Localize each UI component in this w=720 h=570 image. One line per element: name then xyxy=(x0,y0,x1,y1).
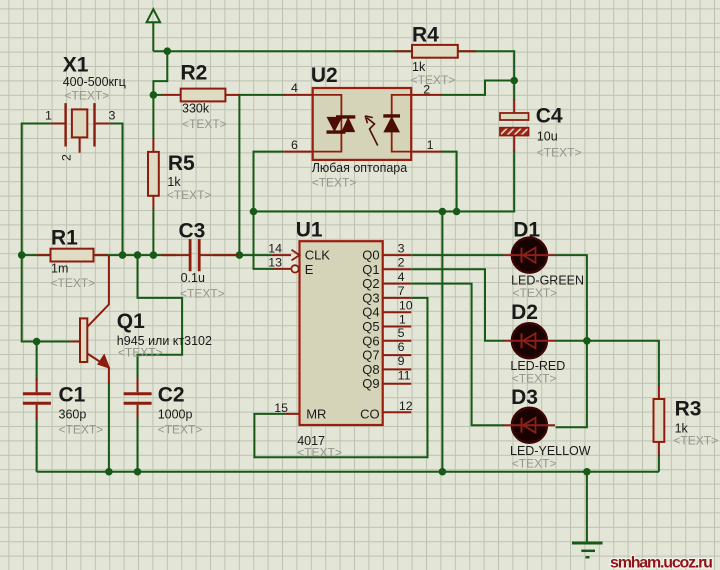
svg-text:D2: D2 xyxy=(511,301,538,324)
transistor Q1 xyxy=(70,255,212,383)
left pin stubs xyxy=(272,255,300,414)
node rail ground xyxy=(583,468,591,476)
wire R5 bottom to net xyxy=(152,208,154,255)
svg-text:<TEXT>: <TEXT> xyxy=(512,372,557,386)
svg-text:360p: 360p xyxy=(59,408,87,422)
base lead xyxy=(70,341,80,343)
svg-text:Q6: Q6 xyxy=(362,333,379,348)
svg-text:R4: R4 xyxy=(412,24,439,47)
svg-text:<TEXT>: <TEXT> xyxy=(65,89,110,103)
LED D3 xyxy=(504,386,591,471)
pin stubs xyxy=(284,95,442,152)
wire common horizontal under U2 xyxy=(254,151,515,212)
emitter lead xyxy=(87,354,109,384)
svg-text:X1: X1 xyxy=(63,54,89,77)
svg-text:<TEXT>: <TEXT> xyxy=(673,434,718,448)
svg-text:6: 6 xyxy=(291,138,298,152)
svg-text:1: 1 xyxy=(399,312,406,326)
svg-text:E: E xyxy=(305,262,314,277)
node common left xyxy=(250,208,258,216)
resistor R4 xyxy=(395,24,476,88)
svg-text:smham.ucoz.ru: smham.ucoz.ru xyxy=(610,555,712,570)
power symbol VCC arrow xyxy=(147,9,161,22)
svg-text:D3: D3 xyxy=(511,386,538,409)
wire cathode column to R3 xyxy=(587,341,659,386)
wire C1 bottom xyxy=(36,418,38,472)
svg-text:1k: 1k xyxy=(167,175,181,189)
wire R3 bottom to rail xyxy=(658,455,660,472)
wire ground rail xyxy=(37,471,659,473)
svg-text:12: 12 xyxy=(399,399,413,413)
right inner bracket xyxy=(392,95,412,152)
svg-text:2: 2 xyxy=(60,154,74,161)
capacitor C4 (polarized) xyxy=(500,99,581,160)
left inner bracket xyxy=(313,95,342,152)
svg-text:C1: C1 xyxy=(59,384,86,407)
right pin stubs xyxy=(383,255,412,412)
wire X1 pin1 net down left side xyxy=(22,124,71,342)
wire power stem xyxy=(152,22,154,51)
svg-text:R2: R2 xyxy=(181,62,208,85)
wire Q0 to D1 xyxy=(411,254,504,256)
svg-text:MR: MR xyxy=(306,407,326,422)
svg-text:10: 10 xyxy=(399,298,413,312)
svg-text:<TEXT>: <TEXT> xyxy=(180,287,225,301)
svg-text:9: 9 xyxy=(398,354,405,368)
resistor R5 xyxy=(148,138,211,209)
wire C3 right to U1 CLK xyxy=(213,254,272,256)
svg-text:1000p: 1000p xyxy=(158,408,193,422)
svg-text:3: 3 xyxy=(109,109,116,123)
svg-text:U2: U2 xyxy=(311,64,338,87)
wire R2 right to U2 pin4 and down to CLK net xyxy=(238,94,285,96)
wire common vertical down to ground rail xyxy=(441,212,443,472)
counter U1 4017 xyxy=(268,219,413,460)
node R2-left on power column xyxy=(150,91,158,99)
svg-text:5: 5 xyxy=(398,326,405,340)
svg-text:Q9: Q9 xyxy=(362,376,379,391)
wire X1 pin3 down to R1 output net xyxy=(109,124,122,256)
svg-text:0.1u: 0.1u xyxy=(181,271,205,285)
crystal X1 xyxy=(45,54,126,162)
body bar xyxy=(80,318,87,362)
svg-text:<TEXT>: <TEXT> xyxy=(51,276,96,290)
svg-text:Q5: Q5 xyxy=(362,319,379,334)
svg-text:6: 6 xyxy=(398,340,405,354)
capacitor C1 xyxy=(23,378,103,437)
svg-text:400-500кгц: 400-500кгц xyxy=(63,75,126,89)
svg-text:R3: R3 xyxy=(675,398,702,421)
svg-text:13: 13 xyxy=(268,256,282,270)
node rail emitter xyxy=(105,468,113,476)
wire C2 bottom xyxy=(137,417,139,472)
svg-text:4: 4 xyxy=(398,270,405,284)
wire U2 pin1 down to common rail xyxy=(441,152,457,212)
svg-text:1: 1 xyxy=(427,138,434,152)
svg-text:3: 3 xyxy=(398,242,405,256)
svg-text:C2: C2 xyxy=(158,384,185,407)
svg-text:Q4: Q4 xyxy=(362,305,379,320)
LED D2 xyxy=(504,301,566,386)
wire R1 to C3 net xyxy=(22,254,177,256)
svg-text:<TEXT>: <TEXT> xyxy=(513,286,558,300)
node R5 bottom xyxy=(150,251,158,259)
output diode xyxy=(383,114,400,117)
svg-text:<TEXT>: <TEXT> xyxy=(512,457,557,471)
node X1 pin3 xyxy=(119,251,127,259)
svg-text:<TEXT>: <TEXT> xyxy=(118,346,163,360)
wire C1 top xyxy=(36,342,38,382)
svg-text:Q1: Q1 xyxy=(362,262,379,277)
wire U2 pin6 to U1 E xyxy=(254,152,285,269)
svg-text:4: 4 xyxy=(291,81,298,95)
node rail common xyxy=(439,468,447,476)
wire D2 right to column xyxy=(555,340,587,342)
svg-text:11: 11 xyxy=(398,368,411,382)
resistor R3 xyxy=(654,385,719,456)
wire top rail to R4 and C4 xyxy=(167,51,514,100)
svg-text:C4: C4 xyxy=(536,105,563,128)
svg-text:Q8: Q8 xyxy=(362,362,379,377)
svg-text:<TEXT>: <TEXT> xyxy=(297,446,342,460)
node C2 branch xyxy=(134,251,142,259)
node power rail junction xyxy=(164,47,172,55)
wire power jog to R5 column xyxy=(153,51,167,139)
svg-text:R5: R5 xyxy=(168,152,195,175)
capacitor C3 xyxy=(162,220,238,301)
svg-text:1m: 1m xyxy=(51,262,68,276)
enable bubble pin 13 xyxy=(291,265,298,272)
svg-text:C3: C3 xyxy=(179,220,206,243)
svg-text:14: 14 xyxy=(268,242,282,256)
wire D1 right down cathode column xyxy=(555,255,587,427)
svg-text:CLK: CLK xyxy=(305,248,331,263)
svg-text:Q1: Q1 xyxy=(117,310,145,333)
node R1 left xyxy=(18,251,26,259)
wire detour to C2 top xyxy=(138,255,183,379)
node U2 pin1 drop xyxy=(453,208,461,216)
svg-text:2: 2 xyxy=(423,83,430,97)
node C4 top / U2 pin2 xyxy=(510,77,518,85)
collector lead xyxy=(87,255,109,327)
svg-text:<TEXT>: <TEXT> xyxy=(312,176,357,190)
svg-text:330k: 330k xyxy=(182,102,210,116)
svg-text:<TEXT>: <TEXT> xyxy=(59,423,104,437)
svg-text:Q0: Q0 xyxy=(362,248,379,263)
svg-text:Q7: Q7 xyxy=(362,348,379,363)
svg-text:<TEXT>: <TEXT> xyxy=(167,188,212,202)
svg-text:2: 2 xyxy=(398,256,405,270)
wire emitter down xyxy=(108,382,110,472)
node rail C2 xyxy=(134,468,142,476)
wire Q3 to MR loop xyxy=(254,298,427,457)
light arrow xyxy=(367,118,378,146)
svg-text:1: 1 xyxy=(45,109,52,123)
clock chevron pin 14 xyxy=(292,250,300,261)
resistor R2 xyxy=(163,62,240,132)
wire ground stem xyxy=(586,472,588,543)
node C3/CLK xyxy=(236,251,244,259)
resistor R1 xyxy=(37,227,108,291)
svg-text:<TEXT>: <TEXT> xyxy=(182,117,227,131)
wire Q2 to D3 xyxy=(411,284,504,426)
node D2 cathode xyxy=(583,337,591,345)
triac triangles xyxy=(336,115,355,118)
svg-text:R1: R1 xyxy=(51,227,78,250)
ground xyxy=(572,543,603,557)
svg-text:U1: U1 xyxy=(296,219,323,242)
svg-text:Любая оптопара: Любая оптопара xyxy=(312,161,408,175)
wire R2 left stub xyxy=(153,94,162,96)
capacitor C2 xyxy=(124,378,203,437)
svg-text:Q3: Q3 xyxy=(362,290,379,305)
svg-text:<TEXT>: <TEXT> xyxy=(537,146,582,160)
svg-text:1k: 1k xyxy=(412,60,426,74)
svg-text:<TEXT>: <TEXT> xyxy=(411,73,456,87)
optocoupler U2 xyxy=(284,64,442,190)
node common mid xyxy=(439,208,447,216)
svg-text:CO: CO xyxy=(360,407,380,422)
node C1 top / base xyxy=(33,338,41,346)
svg-text:10u: 10u xyxy=(537,130,558,144)
svg-text:D1: D1 xyxy=(513,219,540,242)
svg-text:15: 15 xyxy=(274,401,288,415)
wire Q1 to D2 xyxy=(411,269,504,341)
svg-text:<TEXT>: <TEXT> xyxy=(158,423,203,437)
wire U2 pin2 jog to C4 column xyxy=(441,81,515,95)
LED D1 xyxy=(504,219,585,301)
svg-text:Q2: Q2 xyxy=(362,276,379,291)
svg-text:7: 7 xyxy=(398,284,405,298)
